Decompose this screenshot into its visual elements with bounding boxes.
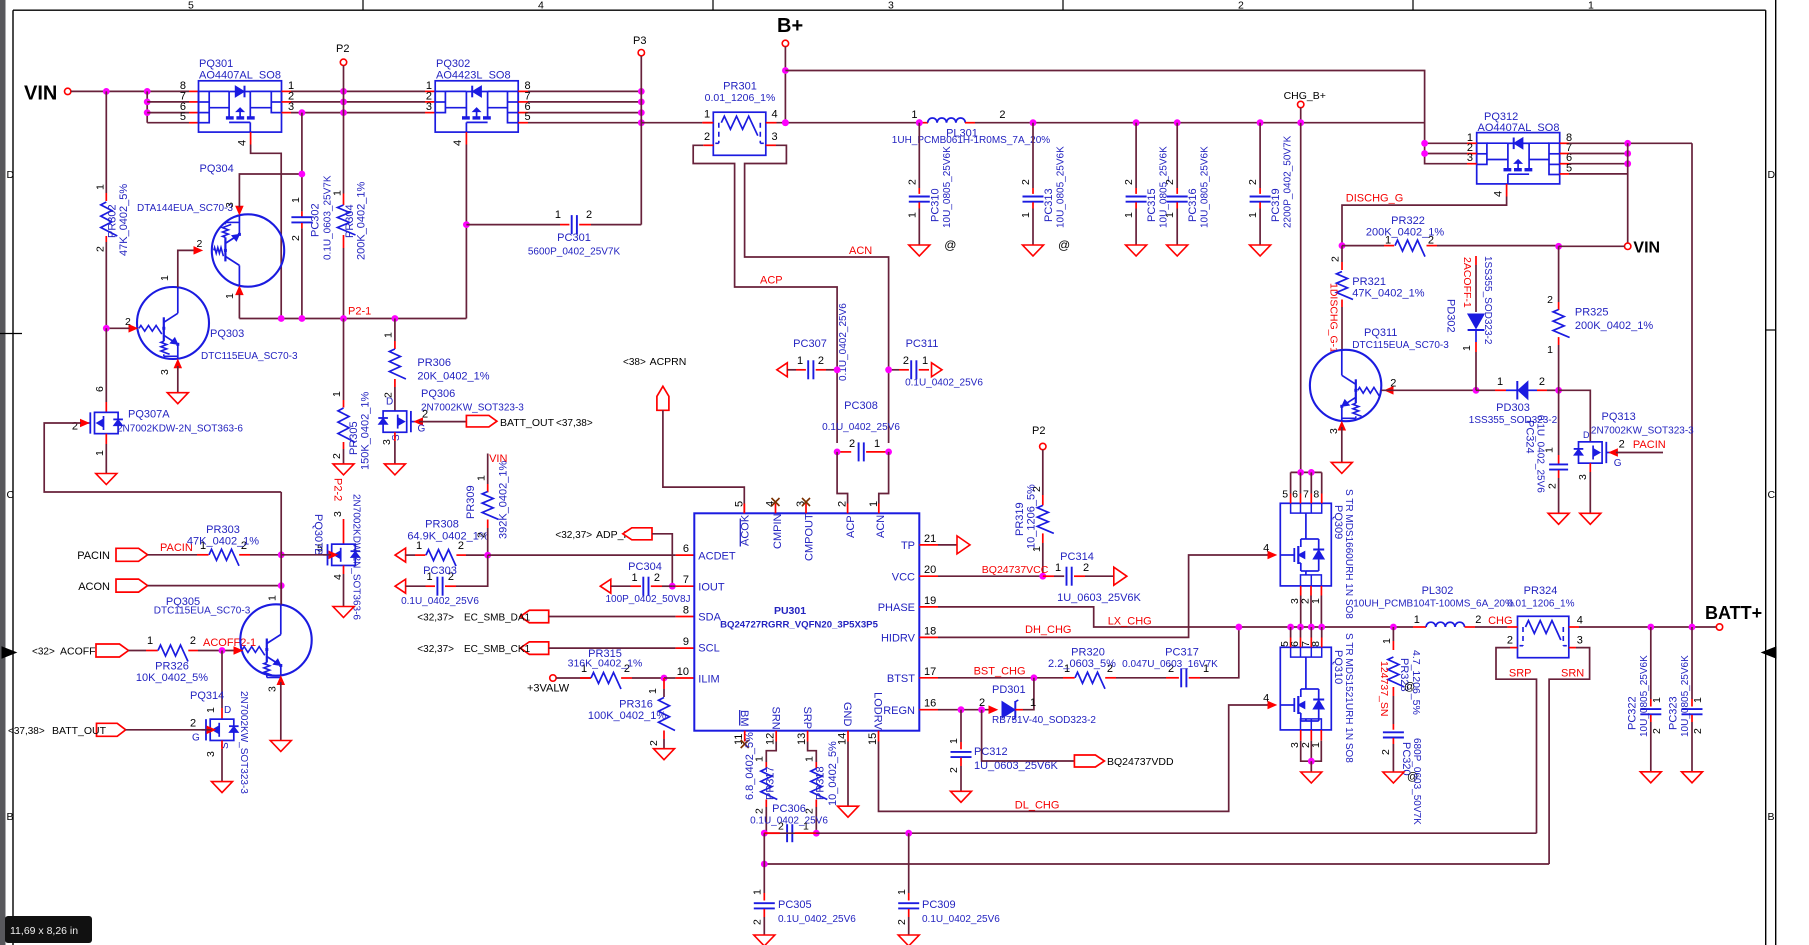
svg-text:2: 2 [906, 179, 918, 185]
junction [144, 88, 151, 95]
wire TP [938, 544, 957, 546]
transistor PQ307A (2N7002KDW-2N_SOT363-6) [72, 328, 244, 473]
svg-text:2: 2 [896, 919, 908, 925]
svg-text:47K_0402_1%: 47K_0402_1% [187, 536, 259, 548]
svg-text:ACN: ACN [875, 515, 887, 538]
svg-text:PC304: PC304 [628, 561, 662, 573]
svg-text:2: 2 [1692, 728, 1704, 734]
svg-text:6: 6 [683, 543, 689, 555]
svg-text:2: 2 [331, 453, 343, 459]
svg-text:2: 2 [903, 355, 909, 367]
resistor PR323 [1381, 624, 1422, 715]
svg-text:10K_0402_5%: 10K_0402_5% [136, 672, 208, 684]
wire SRN net horizontal [764, 863, 1549, 865]
wire PQ314 source to gnd [221, 741, 223, 750]
svg-text:0.047U_0603_16V7K: 0.047U_0603_16V7K [1122, 659, 1218, 670]
svg-text:100P_0402_50V8J: 100P_0402_50V8J [605, 594, 690, 605]
wire PACIN vertical [280, 492, 282, 605]
svg-text:2: 2 [948, 767, 960, 773]
svg-text:0.1U_0402_25V6: 0.1U_0402_25V6 [401, 596, 479, 607]
svg-text:4: 4 [772, 109, 778, 121]
junction [669, 583, 676, 590]
wire PR305 to gnd [343, 449, 345, 464]
wire PQ303 collector to PQ304 base [178, 250, 194, 287]
svg-text:4: 4 [452, 140, 464, 146]
wire PR301 pin2 staple (ACP) [703, 144, 713, 146]
wire PHASE to LX [938, 607, 1413, 627]
svg-text:1: 1 [874, 438, 880, 450]
wire row2 PQ301-PQ302 [291, 101, 425, 103]
ground [96, 474, 117, 485]
svg-text:PR322: PR322 [1391, 215, 1425, 227]
port ACOFF [96, 644, 129, 657]
svg-text:VCC: VCC [892, 571, 915, 583]
svg-text:SRN: SRN [1561, 668, 1584, 680]
junction [219, 647, 226, 654]
svg-text:0.1U_0402_25V6: 0.1U_0402_25V6 [750, 816, 828, 827]
junction [1555, 243, 1562, 250]
junction [1624, 140, 1631, 147]
svg-text:PQ310: PQ310 [1332, 650, 1344, 684]
svg-text:PU301: PU301 [774, 605, 806, 617]
junction [782, 119, 789, 126]
IC PU301 (BQ24727RGRR_VQFN20_3P5X3P5) [677, 498, 938, 748]
svg-text:2: 2 [125, 316, 131, 328]
svg-text:1: 1 [1461, 345, 1473, 351]
sense resistor PR301 [702, 81, 777, 156]
svg-text:PC323: PC323 [1668, 696, 1680, 730]
diode PD301 (RB751V-40) [979, 678, 1096, 726]
svg-text:10U_0805_25V6K: 10U_0805_25V6K [1056, 146, 1067, 228]
svg-text:BQ24727RGRR_VQFN20_3P5X3P5: BQ24727RGRR_VQFN20_3P5X3P5 [720, 620, 879, 631]
svg-text:1: 1 [911, 109, 917, 121]
svg-text:1: 1 [804, 756, 816, 762]
resistor PR318 [804, 741, 840, 833]
wire ADP_I to IOUT node [652, 534, 672, 586]
ground [1167, 245, 1188, 256]
junction [1555, 387, 1562, 394]
svg-text:1: 1 [1547, 344, 1553, 356]
svg-text:2: 2 [476, 532, 488, 538]
wire B+ down [784, 47, 786, 123]
capacitor PC322 [1626, 627, 1663, 772]
svg-text:1: 1 [1414, 614, 1420, 626]
svg-text:CHG_B+: CHG_B+ [1284, 90, 1326, 102]
svg-text:3: 3 [288, 101, 294, 113]
svg-text:1: 1 [1247, 212, 1259, 218]
svg-text:1: 1 [94, 184, 106, 190]
svg-text:2ACOFF-1: 2ACOFF-1 [1461, 257, 1473, 308]
svg-text:D: D [224, 705, 231, 716]
svg-text:ACN: ACN [849, 245, 872, 257]
junction [905, 830, 912, 837]
svg-text:2: 2 [1247, 179, 1259, 185]
svg-text:<38>: <38> [623, 357, 646, 368]
ground [1126, 245, 1147, 256]
frame arrows [2, 647, 16, 658]
capacitor PC317 [1122, 627, 1239, 687]
svg-text:VIN: VIN [1633, 240, 1660, 257]
svg-text:BATT_OUT: BATT_OUT [52, 725, 107, 737]
svg-text:2: 2 [1020, 179, 1032, 185]
junction [144, 99, 151, 106]
resistor PR305 [331, 319, 372, 471]
svg-text:1: 1 [383, 332, 395, 338]
svg-text:PQ314: PQ314 [190, 690, 224, 702]
svg-text:DTC115EUA_SC70-3: DTC115EUA_SC70-3 [1352, 340, 1449, 351]
svg-text:19: 19 [924, 595, 936, 607]
ground [333, 464, 354, 475]
svg-text:PQ302: PQ302 [436, 58, 470, 70]
ground [1331, 462, 1352, 473]
port BATT_OUT (mid) [466, 415, 497, 427]
svg-text:1: 1 [94, 450, 106, 456]
svg-text:+3VALW: +3VALW [527, 683, 570, 695]
wire LODRV (DL_CHG) [879, 705, 1269, 811]
wire PQ303 emitter to gnd [177, 366, 179, 393]
ground [838, 806, 859, 817]
svg-text:PL302: PL302 [1422, 585, 1454, 597]
svg-text:200K_0402_1%: 200K_0402_1% [1575, 320, 1654, 332]
svg-text:2N7002KW_SOT323-3: 2N7002KW_SOT323-3 [421, 403, 524, 414]
junction [1257, 119, 1264, 126]
transistor PQ304 (DTA144EUA_SC70-3) [137, 163, 284, 299]
svg-text:PC322: PC322 [1626, 696, 1638, 730]
inductor PL302 [1353, 585, 1514, 627]
svg-text:2200P_0402_50V7K: 2200P_0402_50V7K [1283, 135, 1294, 228]
transistor PQ306 (2N7002KW_SOT323-3) [378, 387, 524, 464]
resistor PR308 [395, 519, 489, 567]
svg-text:4: 4 [1493, 191, 1505, 197]
junction [638, 119, 645, 126]
wire PQ312 pin4 DISCHG_G [1342, 197, 1507, 246]
svg-text:PQ307B: PQ307B [312, 514, 324, 556]
junction [1339, 242, 1346, 249]
svg-text:2: 2 [1390, 378, 1396, 390]
svg-text:47K_0402_1%: 47K_0402_1% [1352, 287, 1424, 299]
svg-text:1: 1 [1651, 697, 1663, 703]
svg-text:SRP: SRP [1509, 668, 1532, 680]
wire GND pin to gnd [847, 742, 849, 807]
wire REGN to BQ24737VDD [982, 710, 1075, 761]
svg-text:8: 8 [1310, 641, 1322, 647]
capacitor PC314 [1043, 551, 1142, 604]
junction [813, 830, 820, 837]
svg-text:@: @ [944, 238, 956, 252]
wire BATT_OUT port to PQ314 gate [97, 723, 126, 736]
inductor PL301 [892, 109, 1051, 146]
wire to pin5 [147, 122, 189, 124]
svg-text:2: 2 [1539, 376, 1545, 388]
svg-text:2: 2 [586, 209, 592, 221]
svg-text:0.01_1206_1%: 0.01_1206_1% [1507, 598, 1574, 609]
svg-text:EC_SMB_CK1: EC_SMB_CK1 [464, 644, 531, 655]
junction [278, 551, 285, 558]
svg-text:PQ311: PQ311 [1364, 327, 1397, 339]
svg-text:PC306: PC306 [772, 803, 806, 815]
resistor PR309 [465, 453, 510, 555]
svg-text:20K_0402_1%: 20K_0402_1% [417, 371, 489, 383]
svg-text:PC308: PC308 [844, 400, 878, 412]
svg-text:S TR MDS1521URH 1N SO8: S TR MDS1521URH 1N SO8 [1343, 633, 1354, 763]
svg-text:PC312: PC312 [974, 746, 1008, 758]
diode PD302 (1SS355_SOD323-2) [1445, 256, 1494, 390]
resistor PR319 [1014, 450, 1054, 577]
svg-text:6: 6 [1292, 489, 1298, 501]
transistor PQ312 (AO4407AL_SO8) [1467, 111, 1572, 197]
junction [278, 582, 285, 589]
svg-text:2N7002KDW-2N_SOT363-6: 2N7002KDW-2N_SOT363-6 [351, 494, 362, 620]
svg-text:BTST: BTST [887, 673, 915, 685]
junction [340, 99, 347, 106]
svg-text:1: 1 [704, 109, 710, 121]
transistor PQ302 (AO4423L_SO8) [426, 58, 531, 146]
wire PACIN to PQ307B gate [281, 554, 331, 556]
wire rail PL301 to CHG_B+ [975, 122, 1425, 124]
svg-text:1: 1 [906, 212, 918, 218]
wire CHG_B+ into PQ312 pins [1425, 143, 1467, 163]
svg-text:1: 1 [1497, 376, 1503, 388]
svg-text:11,69 x 8,26 in: 11,69 x 8,26 in [10, 925, 78, 937]
svg-text:HIDRV: HIDRV [881, 633, 916, 645]
svg-text:2: 2 [1507, 635, 1513, 647]
svg-text:P2-1: P2-1 [348, 306, 371, 318]
svg-text:@: @ [1058, 238, 1070, 252]
junction [1308, 624, 1315, 631]
svg-text:2: 2 [1475, 614, 1481, 626]
junction [340, 88, 347, 95]
junction [638, 88, 645, 95]
wire to BATT+ vertical [1691, 143, 1693, 627]
capacitor PC313 [1020, 119, 1070, 252]
transistor PQ307B [312, 494, 362, 620]
junction [661, 675, 668, 682]
svg-text:2: 2 [654, 572, 660, 584]
svg-text:1: 1 [752, 889, 764, 895]
junction [144, 109, 151, 116]
svg-text:PR306: PR306 [417, 357, 451, 369]
svg-text:PQ307A: PQ307A [128, 409, 170, 421]
svg-text:316K_0402_1%: 316K_0402_1% [568, 658, 643, 670]
ground [167, 393, 188, 404]
svg-text:2: 2 [1547, 294, 1553, 306]
junction [885, 366, 892, 373]
svg-text:AO4407AL_SO8: AO4407AL_SO8 [1478, 122, 1560, 134]
svg-text:PQ301: PQ301 [199, 58, 233, 70]
svg-text:DL_CHG: DL_CHG [1015, 800, 1060, 812]
svg-text:PC324: PC324 [1524, 420, 1536, 454]
svg-text:PR308: PR308 [425, 519, 459, 531]
svg-text:PC311: PC311 [906, 338, 939, 350]
svg-text:0.1U_0603_25V7K: 0.1U_0603_25V7K [323, 175, 334, 260]
svg-text:PR302: PR302 [107, 204, 119, 238]
svg-text:ACPRN: ACPRN [650, 356, 687, 368]
svg-text:2: 2 [979, 697, 985, 709]
svg-text:2: 2 [999, 109, 1005, 121]
resistor PR320 [1048, 647, 1166, 689]
wire PQ302 pin4 down [465, 145, 467, 319]
junction [834, 366, 841, 373]
junction [103, 88, 110, 95]
frame border [0, 0, 6, 945]
svg-text:3: 3 [1328, 428, 1340, 434]
junction [1421, 150, 1428, 157]
svg-text:C: C [1768, 489, 1776, 501]
wire row3 PQ301-PQ302 [291, 112, 425, 114]
wire to pin7 [147, 101, 189, 103]
wire ACPRN to ACOK [663, 410, 744, 503]
junction [916, 119, 923, 126]
svg-text:B+: B+ [777, 15, 803, 37]
svg-text:5: 5 [180, 111, 186, 123]
junction [1624, 160, 1631, 167]
svg-text:100K_0402_1%: 100K_0402_1% [588, 710, 667, 722]
svg-text:0.1U_0402_25V6: 0.1U_0402_25V6 [822, 422, 900, 433]
svg-text:2: 2 [648, 740, 660, 746]
svg-text:3: 3 [426, 101, 432, 113]
svg-text:BQ24737VCC: BQ24737VCC [982, 564, 1049, 576]
svg-text:<32,37>: <32,37> [555, 530, 592, 541]
wire SCL [549, 647, 676, 649]
wire PQ304 collector to P2-1 row [238, 294, 240, 319]
capacitor PC308 [822, 400, 900, 461]
ground [1250, 245, 1271, 256]
junction [463, 221, 470, 228]
wire HIDRV (DH_CHG) [938, 555, 1268, 637]
junction [1473, 387, 1480, 394]
svg-text:PR326: PR326 [155, 661, 189, 673]
svg-text:2: 2 [190, 635, 196, 647]
transistor PQ310 (MDS1521URH) [1279, 627, 1354, 772]
resistor PR302 [94, 91, 130, 328]
svg-text:0.01_1206_1%: 0.01_1206_1% [705, 92, 776, 104]
wire PQ305 emitter to gnd [280, 682, 282, 741]
wire P2-1 net [239, 318, 466, 320]
svg-text:18: 18 [924, 625, 936, 637]
svg-text:1: 1 [555, 209, 561, 221]
svg-text:2.2_0603_5%: 2.2_0603_5% [1048, 658, 1116, 670]
svg-text:S: S [391, 434, 402, 441]
svg-text:20: 20 [924, 564, 936, 576]
svg-text:SRN: SRN [769, 707, 781, 730]
wire PQ306 gate to BATT_OUT [419, 421, 466, 423]
svg-text:6.8_0402_5%: 6.8_0402_5% [744, 732, 756, 800]
svg-text:1: 1 [147, 635, 153, 647]
ground [951, 791, 972, 802]
wire B+ rail row4 [641, 122, 702, 124]
svg-text:AO4407AL_SO8: AO4407AL_SO8 [199, 70, 281, 82]
ground [898, 935, 919, 945]
svg-text:1: 1 [1381, 638, 1393, 644]
junction [392, 315, 399, 322]
wire B+ rail to PL301 [777, 122, 920, 124]
junction [638, 99, 645, 106]
svg-text:2: 2 [818, 355, 824, 367]
svg-text:PC310: PC310 [929, 188, 941, 222]
transistor PQ314 (2N7002KW_SOT323-3) [202, 651, 239, 741]
svg-text:680P_0603_50V7K: 680P_0603_50V7K [1411, 738, 1422, 825]
svg-text:0.1U_0402_25V6: 0.1U_0402_25V6 [1535, 415, 1546, 493]
svg-text:DTC115EUA_SC70-3: DTC115EUA_SC70-3 [201, 351, 298, 362]
svg-text:PC314: PC314 [1060, 551, 1094, 563]
svg-text:1: 1 [159, 275, 171, 281]
svg-text:4: 4 [538, 0, 544, 12]
svg-text:GND: GND [841, 702, 853, 727]
svg-text:VIN: VIN [24, 83, 57, 105]
resistor PR322 [1339, 215, 1559, 257]
capacitor PC316 [1164, 119, 1211, 245]
svg-text:2: 2 [849, 438, 855, 450]
svg-text:10: 10 [677, 666, 689, 678]
junction [834, 449, 841, 456]
svg-text:PC302: PC302 [310, 203, 322, 237]
ground [1383, 772, 1404, 783]
svg-text:2: 2 [1330, 256, 1342, 262]
junction [1031, 674, 1038, 681]
svg-text:2: 2 [778, 821, 784, 833]
wire VIN branch vertical [146, 91, 148, 122]
svg-text:3: 3 [332, 511, 344, 517]
junction [885, 449, 892, 456]
svg-text:4: 4 [1577, 615, 1583, 627]
wire VCC [938, 575, 1043, 577]
svg-text:10UH_PCMB104T-100MS_6A_20%: 10UH_PCMB104T-100MS_6A_20% [1353, 598, 1514, 609]
svg-text:SCL: SCL [698, 643, 719, 655]
junction [1318, 624, 1325, 631]
svg-text:PR317: PR317 [765, 766, 777, 800]
resistor PR303 [148, 524, 282, 566]
svg-text:200K_0402_1%: 200K_0402_1% [1366, 227, 1445, 239]
wire PQ311 base to PD303 [1381, 389, 1476, 391]
svg-text:<32,37>: <32,37> [417, 613, 454, 624]
junction [1174, 119, 1181, 126]
ground [1682, 772, 1703, 783]
svg-text:PQ303: PQ303 [210, 328, 244, 340]
svg-text:1: 1 [896, 889, 908, 895]
svg-text:PR324: PR324 [1524, 585, 1558, 597]
svg-text:P3: P3 [633, 35, 646, 47]
svg-text:<32,37>: <32,37> [417, 644, 454, 655]
capacitor PC320 [1380, 696, 1422, 825]
svg-text:3: 3 [1467, 152, 1473, 164]
svg-text:B: B [7, 811, 14, 823]
wire SRP staple [1510, 647, 1518, 649]
wire B+ to CHG_B+ top rail [785, 71, 1424, 144]
svg-text:15: 15 [867, 733, 879, 745]
wire SRN staple [1569, 647, 1576, 649]
ground [1640, 772, 1661, 783]
svg-text:2: 2 [1619, 439, 1625, 451]
svg-text:2: 2 [754, 808, 766, 814]
svg-text:3: 3 [1577, 474, 1589, 480]
svg-text:P2: P2 [1032, 425, 1045, 437]
svg-text:0.1U_0402_25V6: 0.1U_0402_25V6 [905, 378, 983, 389]
svg-text:PR321: PR321 [1352, 276, 1386, 288]
junction [1308, 758, 1315, 765]
junction [1287, 624, 1294, 631]
junction [1030, 119, 1037, 126]
svg-text:2: 2 [190, 718, 196, 730]
junction [782, 119, 789, 126]
svg-text:DH_CHG: DH_CHG [1025, 624, 1071, 636]
resistor PR321 [1330, 246, 1425, 350]
svg-text:G: G [1614, 458, 1622, 469]
svg-text:2: 2 [1164, 179, 1176, 185]
svg-text:2N7002KW_SOT323-3: 2N7002KW_SOT323-3 [238, 691, 249, 794]
svg-text:PR316: PR316 [619, 699, 653, 711]
svg-text:10U_0805_25V6K: 10U_0805_25V6K [1639, 655, 1650, 737]
svg-text:LODRV: LODRV [872, 692, 884, 730]
